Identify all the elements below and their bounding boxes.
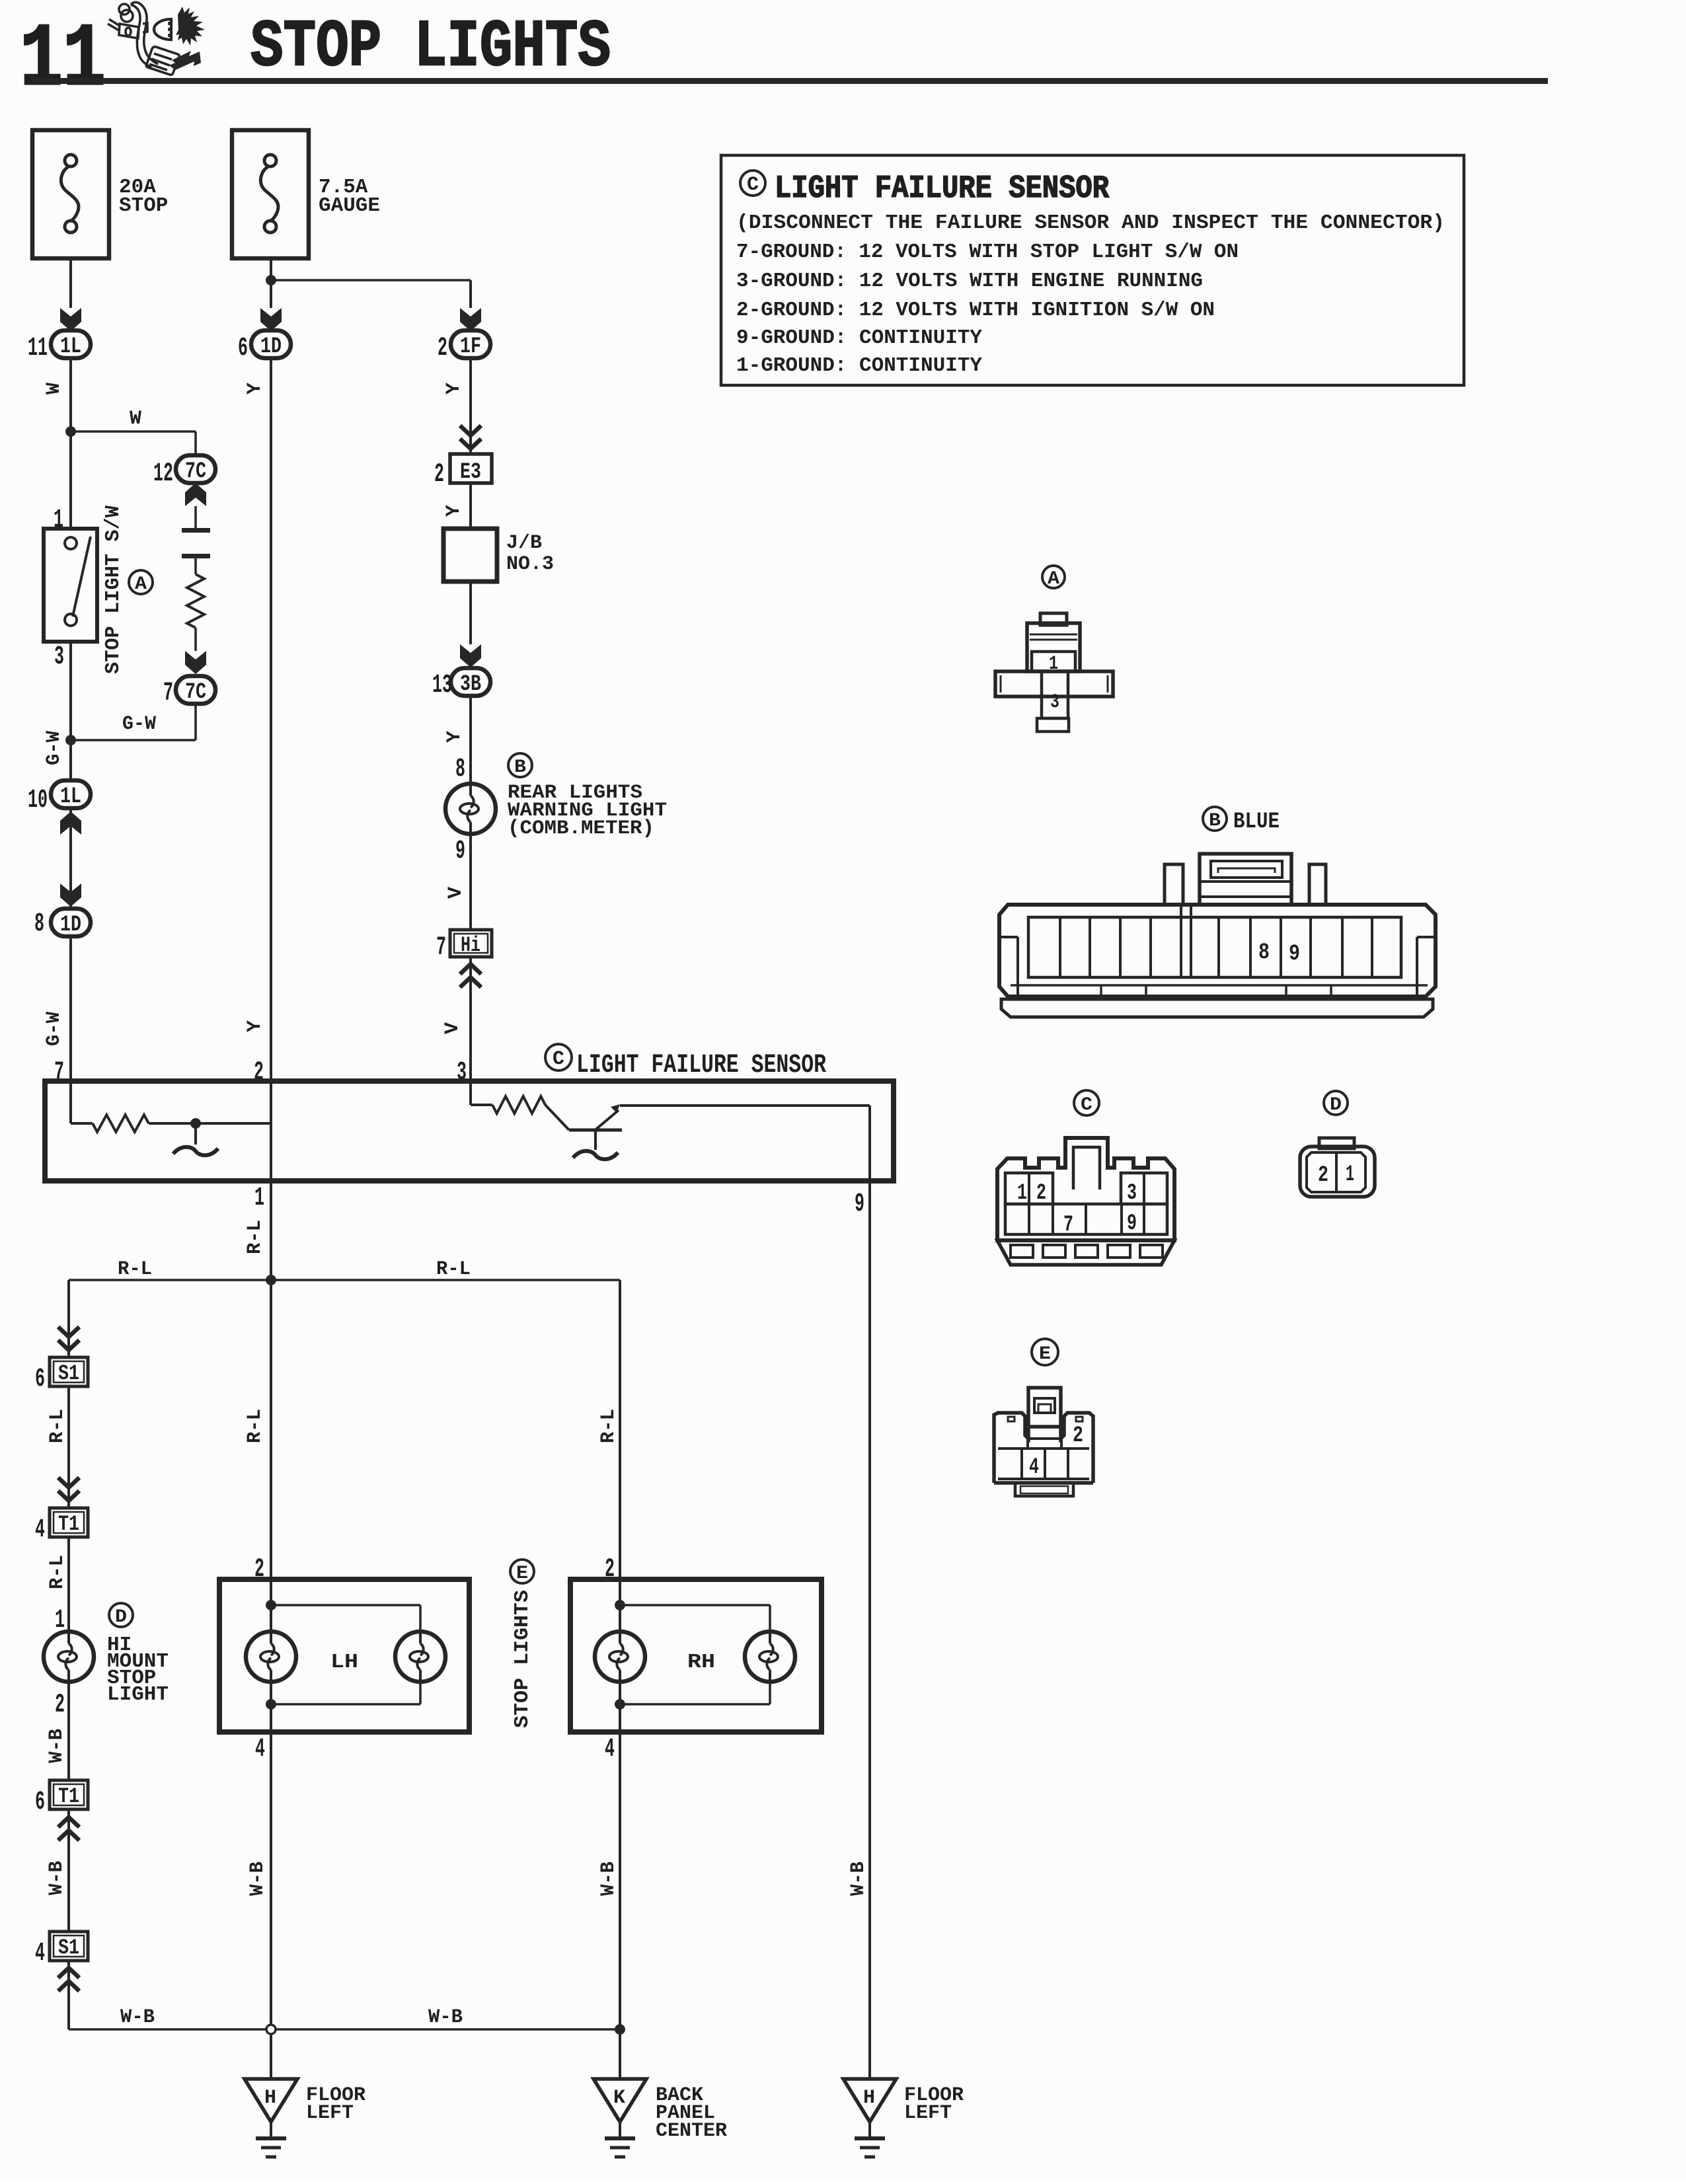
- svg-text:J/B: J/B: [506, 532, 542, 554]
- svg-text:R-L: R-L: [244, 1220, 266, 1254]
- svg-text:1: 1: [254, 1184, 264, 1213]
- svg-text:4: 4: [1029, 1455, 1039, 1480]
- svg-text:G-W: G-W: [43, 1012, 65, 1046]
- svg-text:R-L: R-L: [46, 1555, 69, 1589]
- svg-text:RH: RH: [687, 1651, 715, 1674]
- svg-text:4: 4: [35, 1515, 45, 1545]
- svg-text:A: A: [135, 574, 147, 595]
- svg-text:7: 7: [436, 933, 446, 963]
- svg-text:3: 3: [54, 642, 64, 672]
- svg-text:T1: T1: [58, 1512, 79, 1536]
- svg-text:W-B: W-B: [597, 1862, 620, 1896]
- svg-text:G-W: G-W: [122, 713, 156, 735]
- svg-text:V: V: [445, 887, 467, 899]
- svg-text:CENTER: CENTER: [656, 2120, 727, 2142]
- svg-text:1: 1: [1017, 1181, 1027, 1206]
- svg-text:1L: 1L: [60, 784, 81, 810]
- svg-text:C: C: [1081, 1095, 1092, 1115]
- svg-text:S1: S1: [58, 1936, 79, 1960]
- svg-text:7: 7: [163, 679, 173, 708]
- svg-text:4: 4: [605, 1735, 615, 1764]
- svg-text:6: 6: [35, 1365, 45, 1394]
- svg-text:D: D: [115, 1607, 127, 1628]
- svg-text:3-GROUND: 12 VOLTS WITH ENGINE: 3-GROUND: 12 VOLTS WITH ENGINE RUNNING: [736, 270, 1203, 293]
- svg-text:E: E: [1039, 1344, 1051, 1365]
- svg-text:Y: Y: [443, 731, 466, 743]
- svg-text:STOP LIGHTS: STOP LIGHTS: [511, 1590, 534, 1728]
- svg-text:W: W: [43, 383, 65, 395]
- svg-text:LEFT: LEFT: [306, 2102, 354, 2125]
- svg-text:E3: E3: [460, 460, 481, 485]
- svg-text:9: 9: [1127, 1211, 1137, 1236]
- svg-text:R-L: R-L: [436, 1258, 471, 1281]
- svg-text:7-GROUND: 12 VOLTS WITH STOP L: 7-GROUND: 12 VOLTS WITH STOP LIGHT S/W O…: [736, 241, 1239, 264]
- svg-text:LH: LH: [330, 1651, 358, 1674]
- svg-text:3: 3: [1127, 1181, 1137, 1206]
- svg-text:8: 8: [34, 909, 44, 939]
- svg-text:6: 6: [35, 1788, 45, 1817]
- svg-text:1D: 1D: [60, 913, 81, 938]
- svg-text:9: 9: [455, 837, 465, 866]
- svg-text:11: 11: [28, 334, 48, 363]
- svg-text:D: D: [1330, 1095, 1342, 1115]
- svg-text:2-GROUND: 12 VOLTS WITH IGNITI: 2-GROUND: 12 VOLTS WITH IGNITION S/W ON: [736, 299, 1215, 322]
- svg-text:C: C: [553, 1048, 564, 1071]
- svg-text:A: A: [1048, 569, 1059, 589]
- svg-text:Hi: Hi: [461, 933, 480, 958]
- svg-text:2: 2: [1036, 1181, 1046, 1206]
- svg-text:2: 2: [438, 334, 447, 363]
- svg-text:STOP LIGHTS: STOP LIGHTS: [250, 11, 611, 85]
- svg-text:R-L: R-L: [46, 1409, 69, 1443]
- svg-text:2: 2: [55, 1690, 65, 1720]
- svg-text:6: 6: [238, 334, 248, 363]
- svg-text:1D: 1D: [260, 334, 282, 359]
- svg-text:W: W: [130, 408, 141, 430]
- svg-text:1F: 1F: [460, 334, 481, 359]
- svg-text:8: 8: [455, 755, 465, 784]
- svg-text:C: C: [747, 174, 759, 196]
- svg-text:3B: 3B: [460, 672, 481, 697]
- svg-text:W-B: W-B: [428, 2006, 463, 2029]
- svg-text:LEFT: LEFT: [904, 2102, 952, 2125]
- svg-text:7C: 7C: [185, 680, 206, 705]
- svg-text:W-B: W-B: [46, 1729, 68, 1763]
- svg-text:2: 2: [1318, 1163, 1328, 1188]
- svg-text:B: B: [514, 757, 526, 778]
- svg-text:11: 11: [20, 10, 106, 111]
- svg-text:Y: Y: [443, 505, 465, 517]
- svg-text:R-L: R-L: [597, 1409, 620, 1443]
- svg-text:4: 4: [255, 1735, 265, 1764]
- svg-text:2: 2: [1073, 1423, 1083, 1449]
- svg-text:LIGHT: LIGHT: [107, 1683, 169, 1706]
- svg-text:Y: Y: [244, 1020, 266, 1032]
- svg-text:(COMB.METER): (COMB.METER): [508, 817, 654, 840]
- svg-text:BLUE: BLUE: [1233, 810, 1280, 835]
- svg-text:9: 9: [1289, 942, 1300, 967]
- svg-text:LIGHT FAILURE SENSOR: LIGHT FAILURE SENSOR: [576, 1051, 826, 1080]
- svg-text:H: H: [863, 2087, 875, 2109]
- svg-text:Y: Y: [244, 383, 266, 395]
- svg-text:H: H: [264, 2087, 276, 2109]
- svg-text:S1: S1: [58, 1361, 79, 1386]
- svg-text:LIGHT FAILURE SENSOR: LIGHT FAILURE SENSOR: [775, 171, 1109, 207]
- svg-text:W-B: W-B: [847, 1862, 870, 1896]
- svg-text:7: 7: [1063, 1213, 1073, 1238]
- svg-text:1: 1: [54, 506, 63, 535]
- svg-text:W-B: W-B: [46, 1861, 68, 1895]
- svg-text:T1: T1: [58, 1784, 79, 1809]
- svg-text:W-B: W-B: [120, 2006, 155, 2029]
- svg-text:12: 12: [153, 459, 173, 489]
- svg-text:STOP LIGHT S/W: STOP LIGHT S/W: [102, 506, 125, 674]
- svg-text:V: V: [441, 1022, 464, 1034]
- svg-text:10: 10: [28, 786, 48, 815]
- svg-text:9: 9: [855, 1189, 864, 1219]
- svg-text:R-L: R-L: [118, 1258, 152, 1281]
- svg-text:K: K: [613, 2087, 625, 2109]
- svg-text:R-L: R-L: [244, 1409, 266, 1443]
- svg-text:GAUGE: GAUGE: [319, 194, 380, 217]
- svg-text:STOP: STOP: [119, 194, 168, 217]
- svg-text:2: 2: [434, 460, 444, 490]
- svg-text:NO.3: NO.3: [506, 553, 554, 576]
- svg-text:G-W: G-W: [43, 731, 65, 765]
- svg-text:Y: Y: [443, 383, 465, 395]
- svg-text:B: B: [1209, 811, 1221, 831]
- svg-text:1: 1: [1346, 1162, 1354, 1187]
- svg-text:13: 13: [432, 671, 452, 700]
- svg-text:3: 3: [1050, 691, 1059, 714]
- svg-text:1-GROUND: CONTINUITY: 1-GROUND: CONTINUITY: [736, 354, 982, 377]
- svg-text:4: 4: [35, 1939, 45, 1969]
- svg-text:9-GROUND: CONTINUITY: 9-GROUND: CONTINUITY: [736, 326, 982, 350]
- svg-text:(DISCONNECT THE FAILURE SENSOR: (DISCONNECT THE FAILURE SENSOR AND INSPE…: [736, 211, 1445, 235]
- svg-text:1L: 1L: [60, 334, 81, 359]
- svg-text:7C: 7C: [185, 459, 206, 484]
- svg-text:E: E: [516, 1563, 528, 1584]
- svg-text:W-B: W-B: [247, 1862, 269, 1896]
- svg-text:8: 8: [1258, 940, 1270, 965]
